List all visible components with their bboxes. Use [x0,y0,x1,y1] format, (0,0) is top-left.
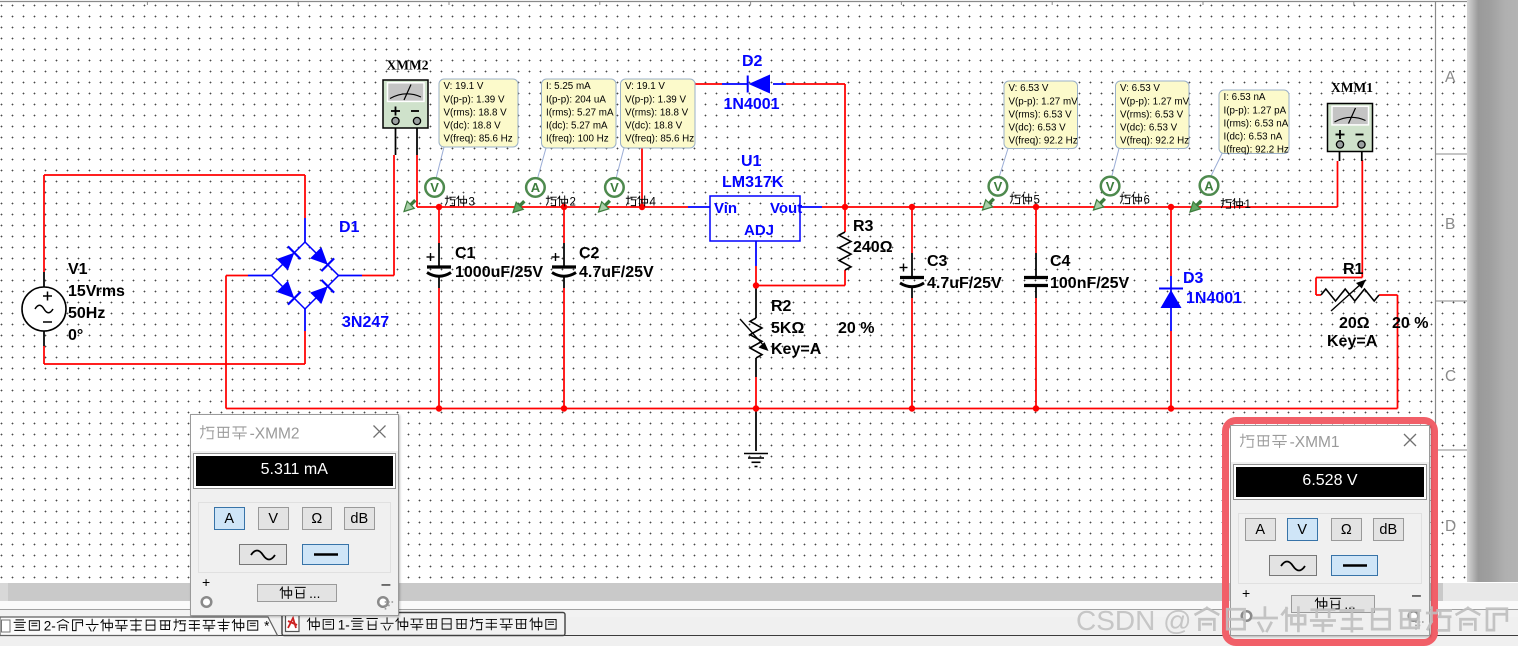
svg-text:...: ... [309,586,320,601]
svg-text:–: – [381,576,390,593]
svg-text:CSDN @: CSDN @ [1076,605,1192,636]
svg-text:1-: 1- [338,618,350,633]
svg-text:+: + [202,574,210,590]
svg-text:*: * [264,619,270,634]
svg-text:2-: 2- [44,619,56,634]
svg-text:-XMM1: -XMM1 [1290,434,1340,451]
svg-text:-XMM2: -XMM2 [249,425,299,442]
